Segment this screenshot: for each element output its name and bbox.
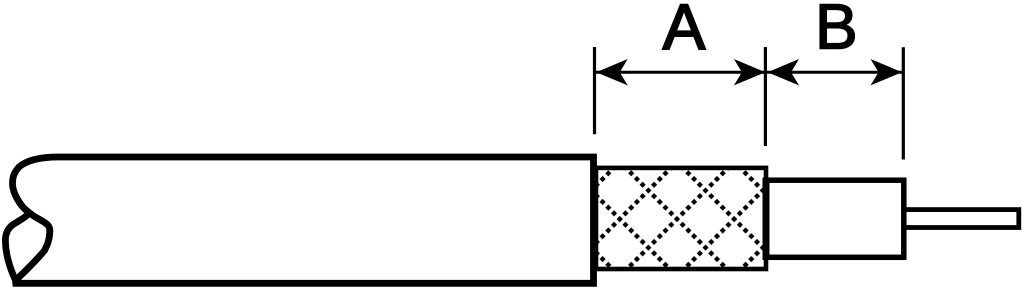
svg-text:B: B bbox=[815, 0, 858, 63]
svg-text:A: A bbox=[663, 0, 706, 63]
